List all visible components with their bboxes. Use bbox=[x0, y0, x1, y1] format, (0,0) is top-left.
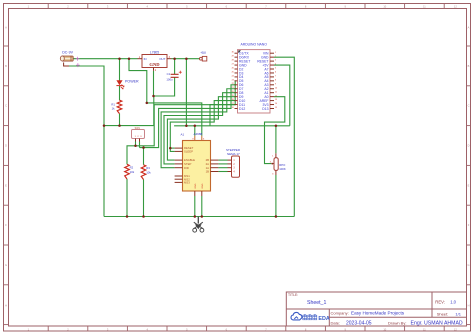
svg-text:10k: 10k bbox=[146, 171, 151, 175]
svg-text:B: B bbox=[468, 64, 470, 68]
svg-text:DC-9V: DC-9V bbox=[62, 50, 73, 54]
svg-text:C: C bbox=[5, 104, 7, 108]
svg-text:NEMA 17: NEMA 17 bbox=[227, 152, 240, 156]
svg-text:IN: IN bbox=[144, 57, 147, 61]
svg-text:E: E bbox=[5, 183, 7, 187]
svg-text:SLEEP: SLEEP bbox=[184, 150, 193, 154]
svg-text:10k: 10k bbox=[130, 170, 135, 174]
svg-text:GND: GND bbox=[195, 183, 197, 188]
svg-text:OUT: OUT bbox=[159, 57, 165, 61]
svg-text:L7805: L7805 bbox=[150, 51, 159, 55]
svg-text:1.0: 1.0 bbox=[450, 299, 456, 304]
svg-text:GND: GND bbox=[202, 183, 204, 188]
svg-text:DIR: DIR bbox=[184, 166, 189, 170]
svg-text:ARDUINO NANO: ARDUINO NANO bbox=[241, 42, 268, 46]
svg-text:G: G bbox=[467, 263, 469, 267]
svg-text:R3: R3 bbox=[146, 166, 150, 170]
svg-text:1B: 1B bbox=[206, 170, 210, 174]
svg-text:D: D bbox=[5, 144, 7, 148]
svg-text:2023-04-05: 2023-04-05 bbox=[346, 320, 372, 326]
svg-text:C: C bbox=[468, 104, 470, 108]
svg-text:REV:: REV: bbox=[435, 299, 445, 304]
svg-text:C1: C1 bbox=[167, 72, 171, 76]
svg-text:H: H bbox=[5, 303, 7, 307]
svg-text:TITLE:: TITLE: bbox=[288, 293, 298, 297]
svg-text:Drawn By:: Drawn By: bbox=[388, 320, 406, 325]
svg-text:H: H bbox=[468, 303, 470, 307]
svg-text:D13: D13 bbox=[262, 107, 268, 111]
svg-text:POWER: POWER bbox=[125, 79, 139, 83]
svg-text:A: A bbox=[5, 25, 7, 29]
svg-text:100K: 100K bbox=[279, 167, 286, 171]
svg-text:Sheet_1: Sheet_1 bbox=[307, 300, 326, 306]
svg-text:R2: R2 bbox=[130, 166, 134, 170]
svg-text:Engr. USMAN AHMAD: Engr. USMAN AHMAD bbox=[411, 321, 463, 327]
svg-text:G: G bbox=[5, 263, 7, 267]
svg-text:D12: D12 bbox=[239, 107, 245, 111]
svg-text:Company:: Company: bbox=[331, 310, 349, 315]
svg-text:+5V: +5V bbox=[200, 51, 207, 55]
svg-text:Sheet:: Sheet: bbox=[437, 311, 449, 316]
svg-text:SW1: SW1 bbox=[135, 127, 141, 130]
svg-text:GND: GND bbox=[149, 62, 160, 67]
svg-text:E: E bbox=[468, 183, 470, 187]
svg-text:1/1: 1/1 bbox=[455, 311, 461, 316]
svg-text:MS3: MS3 bbox=[184, 181, 190, 185]
svg-text:A: A bbox=[468, 25, 470, 29]
svg-text:A4988: A4988 bbox=[194, 132, 203, 136]
svg-text:EDA: EDA bbox=[318, 316, 329, 322]
svg-text:Easy HomeMade Projects: Easy HomeMade Projects bbox=[351, 310, 405, 315]
svg-text:A1: A1 bbox=[181, 133, 185, 137]
svg-text:100u: 100u bbox=[166, 78, 173, 82]
svg-text:D: D bbox=[468, 144, 470, 148]
svg-text:Date:: Date: bbox=[331, 320, 341, 325]
svg-text:B: B bbox=[5, 64, 7, 68]
